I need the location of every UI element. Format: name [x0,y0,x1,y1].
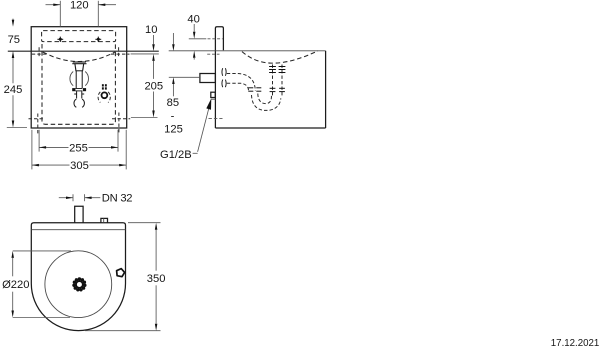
pop-up knob top detail [102,84,107,89]
basin body dashed outline [42,44,115,124]
tap flange dashed arcs [222,68,226,87]
svg-text:205: 205 [144,80,163,92]
pop-up knob ring [102,92,108,98]
side view: body bottom [215,127,325,129]
svg-text:245: 245 [4,84,23,96]
svg-text:10: 10 [145,24,157,36]
svg-text:Ø220: Ø220 [2,279,29,291]
svg-text:350: 350 [147,273,166,285]
G1/2B leader arrowhead [206,98,211,109]
drain tailpiece dashed right [281,65,283,98]
dim 85-125 [164,33,183,136]
corner tab bottom-right [112,113,130,134]
dim 40 [187,13,199,59]
drain strainer flower [72,277,86,291]
shelf line across front view [8,50,159,52]
dim DN32 arrows [59,192,132,204]
dim 255 [39,142,118,154]
supply pipe dashed bottom [227,83,249,91]
plan view: inner back edge [31,229,125,231]
plan view: body outline [31,223,125,331]
dim 120 extension lines [59,1,61,27]
tap hole pentagon [117,269,125,277]
dim 205 [131,54,163,118]
dim Ø220 extension lines [13,250,71,252]
basin bowl dashed profile [242,51,318,63]
supply pipe dashed top [227,74,256,92]
rim reference line (10 below shelf) [131,53,159,55]
drain tailpiece dashed left [272,65,274,98]
mounting hole left [57,37,63,42]
dim 10 [145,24,157,51]
corner tab bottom-left [29,114,44,134]
svg-text:75: 75 [8,34,20,46]
spout [200,74,216,83]
svg-text:120: 120 [70,0,89,11]
trap inner arc [258,94,272,104]
svg-text:125: 125 [164,124,183,136]
svg-text:40: 40 [187,13,199,25]
dim 75 [8,19,20,58]
dim 350 extension lines [128,222,161,224]
mounting rail dashed rectangle [42,31,116,42]
corner tab top-right [111,47,130,56]
drain hole dashed circle [74,99,76,107]
dim 350 [147,223,166,331]
basin rim dashed curve [43,52,115,62]
dim 305 [32,160,126,172]
svg-text:DN 32: DN 32 [102,192,132,204]
svg-text:255: 255 [69,142,88,154]
G1/2B leader line [198,107,210,152]
dim 245 [4,58,27,128]
basin bowl circle [45,251,112,318]
tap: knob circle arcs [70,72,73,86]
drain outlet centerline [209,118,223,120]
dim 120 [46,0,117,11]
trap outer arc [252,95,281,110]
svg-text:-: - [171,110,175,122]
upper hole centerline [189,38,207,40]
dim DN32 ticks [72,194,74,201]
spout extension line [169,76,200,78]
svg-text:17.12.2021: 17.12.2021 [551,338,600,347]
lower hole dashes [207,53,219,55]
wall fitting G1/2 [211,92,216,97]
svg-text:85: 85 [167,97,179,109]
trap inlet nut ticks [248,88,261,91]
tap: nut [72,88,86,91]
side view: body top line [169,50,326,52]
tap: top cap [72,62,86,71]
dim 305 extension lines [31,130,33,170]
small tab on rim [101,218,108,222]
dim 255 extension lines [38,130,40,152]
tailpiece thread ticks [269,67,285,92]
side view: body right edge [325,51,327,128]
side view: wall line and bracket tab [215,27,223,128]
drain pipe DN32 [75,206,83,223]
corner tab top-left [32,47,47,56]
svg-text:305: 305 [70,160,89,172]
mounting hole right [95,37,101,42]
front view: basin body outline [31,27,127,128]
dim Ø220 [2,251,29,318]
svg-text:G1/2B: G1/2B [160,149,192,161]
tap: body verticals [75,71,83,89]
tap: lower stem [74,91,84,98]
pop-up knob dashed circle [98,92,100,103]
